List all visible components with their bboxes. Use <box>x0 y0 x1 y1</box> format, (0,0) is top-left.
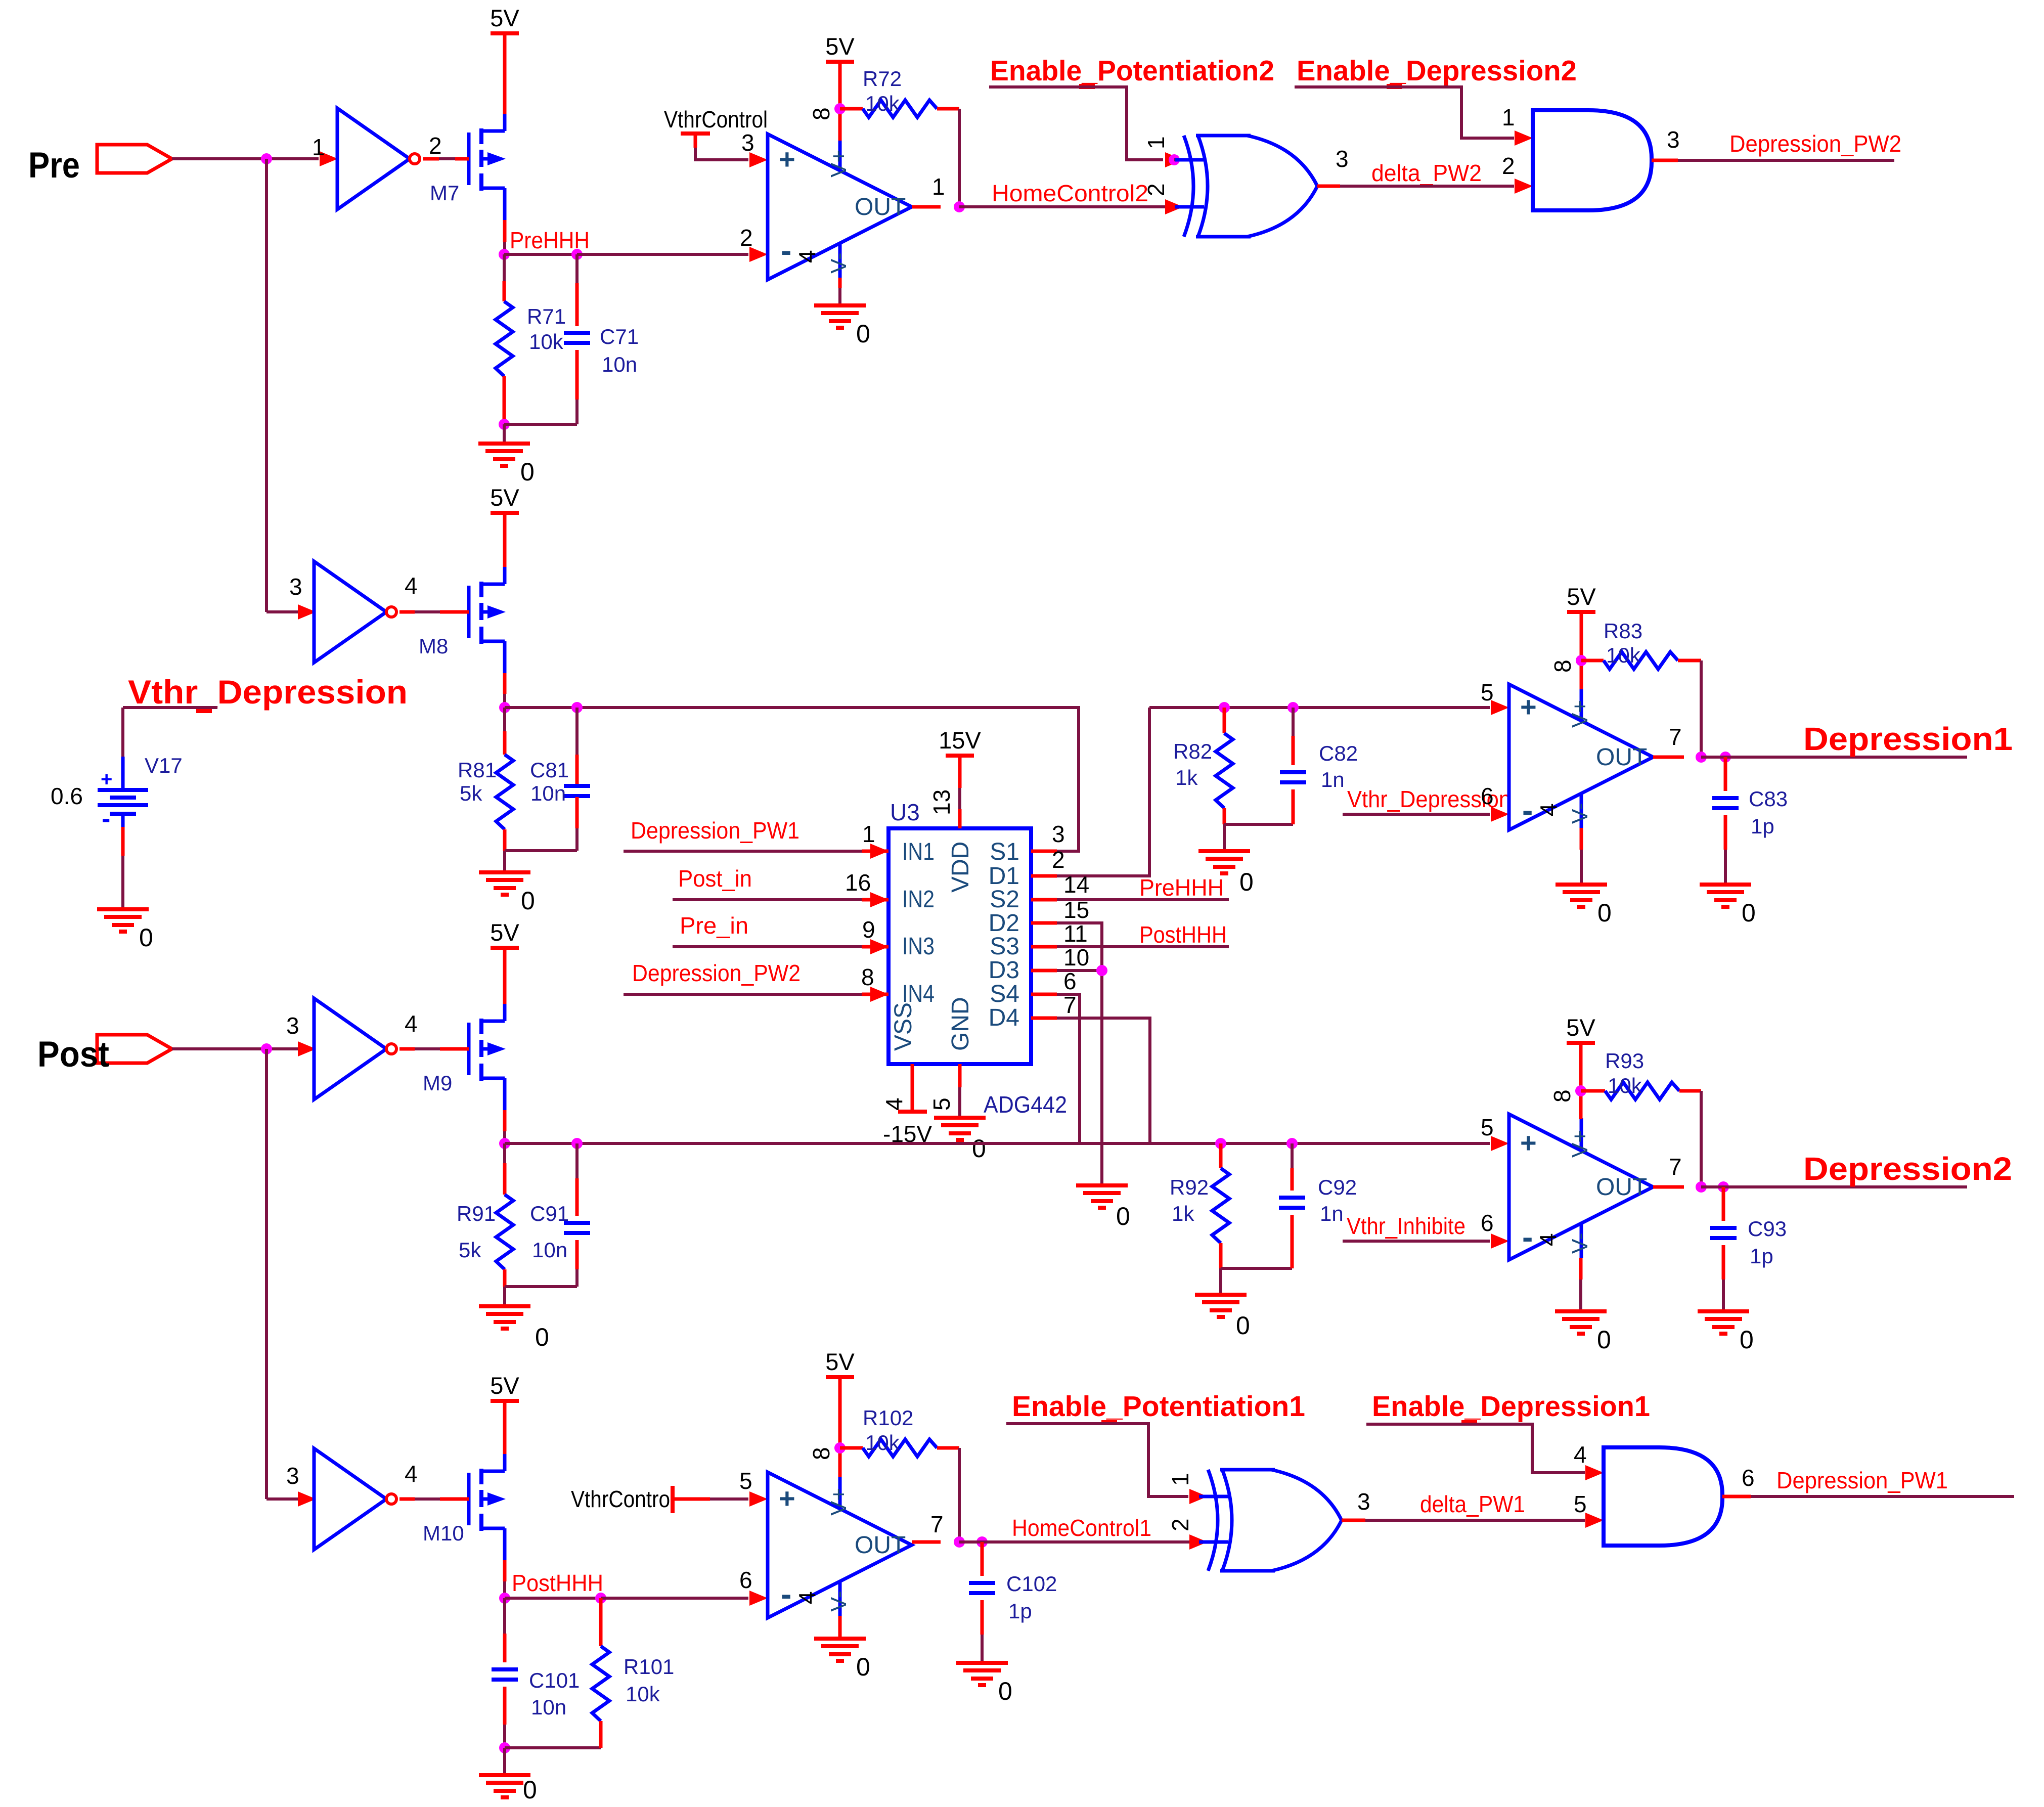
svg-text:10k: 10k <box>865 1431 900 1455</box>
wire C91 bottom lead <box>575 1240 579 1269</box>
pin arrow inverter1 input <box>320 151 338 166</box>
wire C101 bottom lead <box>503 1687 507 1725</box>
svg-text:OUT: OUT <box>1596 744 1647 771</box>
ground 0 at op-amp2 V- <box>1556 883 1607 887</box>
wire 5V to M9 drain <box>503 948 507 1004</box>
wire Post to inverter3 <box>172 1047 298 1050</box>
svg-text:16: 16 <box>845 869 871 896</box>
svg-text:4: 4 <box>405 572 418 599</box>
svg-text:1: 1 <box>1502 104 1515 130</box>
wire XOR2 output stub <box>1342 1519 1365 1522</box>
wire 5V to op-amp2 V+ pin 8 <box>1580 612 1583 689</box>
node C93 top <box>1718 1181 1729 1193</box>
wire Pre_in to IN3 <box>673 945 862 948</box>
wire delta_PW2 <box>1340 185 1514 188</box>
wire R83 left lead <box>1581 659 1604 663</box>
svg-text:GND: GND <box>947 997 974 1051</box>
ground 0 under C101 <box>479 1773 530 1777</box>
svg-text:0: 0 <box>523 1776 537 1804</box>
ground 0 under V17 <box>97 907 149 911</box>
wire C102 bottom lead <box>981 1600 984 1635</box>
svg-text:V+: V+ <box>826 1488 851 1516</box>
pin 4 stub VSS <box>911 1064 914 1112</box>
pin arrow op-amp1 minus <box>749 247 768 262</box>
svg-text:+: + <box>1520 691 1537 723</box>
wire inverter3 out to M9 gate <box>399 1047 415 1051</box>
svg-text:V+: V+ <box>1568 1130 1592 1158</box>
svg-text:1: 1 <box>312 134 325 160</box>
wire Enable_Potentiation2 <box>989 87 1163 160</box>
pin arrow op-amp4 plus <box>749 1491 768 1507</box>
svg-text:0: 0 <box>535 1323 549 1351</box>
wire 5V to op-amp4 V+ pin 8 <box>838 1377 842 1477</box>
svg-text:C82: C82 <box>1319 741 1358 765</box>
wire Enable_Depression2 <box>1295 87 1514 138</box>
wire op-amp1 V- to ground <box>838 278 842 288</box>
svg-text:0: 0 <box>1116 1202 1130 1230</box>
power 5V at M10 <box>491 1399 519 1403</box>
wire V17 minus lead <box>121 827 125 856</box>
wire R102 left lead <box>840 1446 863 1450</box>
wire R92 bottom to C92 bottom <box>1221 1267 1292 1270</box>
svg-text:Depression2: Depression2 <box>1803 1151 2012 1187</box>
pin stub IN4 <box>862 993 888 996</box>
wire Pre vertical to M8 inverter <box>265 159 268 612</box>
pin stub S1 <box>1031 850 1057 853</box>
node Pre junction <box>261 153 272 164</box>
svg-text:4: 4 <box>794 250 820 263</box>
svg-text:C92: C92 <box>1318 1175 1357 1199</box>
wire R72 left lead <box>840 107 863 111</box>
ground 0 under C93 <box>1698 1309 1749 1313</box>
svg-text:U3: U3 <box>890 799 920 825</box>
svg-text:S1: S1 <box>990 839 1019 865</box>
wire Depression1 out <box>1701 756 1967 759</box>
svg-text:R101: R101 <box>624 1655 674 1679</box>
wire HomeControl1 to XOR2 <box>959 1540 1205 1544</box>
capacitor C71 <box>564 331 590 335</box>
svg-text:M9: M9 <box>423 1071 452 1095</box>
wire R91 top lead <box>503 1143 506 1163</box>
wire op-amp4 output stub <box>912 1540 941 1544</box>
node XOR1 input 1 <box>1169 154 1180 165</box>
pin arrow op-amp3 plus <box>1491 1136 1509 1151</box>
svg-text:ADG442: ADG442 <box>984 1091 1067 1118</box>
wire Enable_Depression1 <box>1366 1424 1585 1473</box>
svg-text:R71: R71 <box>527 304 566 328</box>
inverter A1 <box>337 108 410 209</box>
pin 5 stub GND <box>958 1064 962 1087</box>
capacitor C93 <box>1710 1226 1737 1230</box>
wire op-amp4 V- to ground <box>838 1616 842 1639</box>
svg-text:5V: 5V <box>1567 583 1596 610</box>
wire AND1 output stub <box>1652 159 1678 162</box>
svg-text:5: 5 <box>1574 1491 1587 1517</box>
svg-text:5V: 5V <box>490 5 519 31</box>
svg-text:1: 1 <box>932 173 945 200</box>
svg-text:6: 6 <box>1481 783 1494 809</box>
capacitor C82 <box>1280 770 1306 774</box>
wire C83 top lead <box>1724 757 1727 791</box>
svg-text:15: 15 <box>1063 897 1089 923</box>
svg-text:Enable_Depression1: Enable_Depression1 <box>1372 1390 1650 1423</box>
wire Vthr_Depression stub <box>123 706 217 709</box>
svg-text:0: 0 <box>972 1134 986 1163</box>
svg-text:7: 7 <box>1669 1154 1682 1180</box>
wire R72 right lead <box>937 107 959 111</box>
svg-text:5V: 5V <box>1566 1014 1595 1041</box>
pin arrow XOR2 input 1 <box>1189 1489 1208 1504</box>
pin arrow op-amp2 minus <box>1491 807 1509 822</box>
pin stub S2 <box>1031 898 1057 902</box>
pin stub S3 <box>1031 945 1057 949</box>
power -15V bar at VSS <box>898 1110 927 1114</box>
svg-text:0: 0 <box>1740 1326 1754 1354</box>
resistor R101 <box>592 1646 609 1721</box>
svg-text:3: 3 <box>286 1012 299 1039</box>
svg-text:0: 0 <box>998 1677 1012 1705</box>
wire Post vertical to inverter4 <box>265 1049 268 1499</box>
wire R72 feedback down to output <box>958 109 961 207</box>
svg-text:4: 4 <box>1535 803 1562 816</box>
svg-text:0: 0 <box>856 1653 870 1681</box>
node PreHHH at M7 source <box>499 249 510 260</box>
ground 0 under R82 <box>1198 849 1250 853</box>
wire Depression2 out <box>1701 1185 1967 1188</box>
svg-text:4: 4 <box>405 1010 418 1037</box>
wire delta_PW1 <box>1365 1519 1585 1522</box>
svg-text:8: 8 <box>808 1447 834 1460</box>
wire C101 top lead <box>503 1598 506 1634</box>
svg-text:VDD: VDD <box>947 842 974 893</box>
resistor R81 <box>496 755 513 829</box>
transistor M10 <box>467 1473 471 1525</box>
svg-text:5V: 5V <box>490 919 519 946</box>
svg-text:2: 2 <box>1167 1518 1193 1531</box>
power 5V at M8 <box>491 511 519 515</box>
wire M10 source down <box>503 1560 507 1581</box>
wire R93 right lead <box>1679 1089 1701 1093</box>
svg-text:3: 3 <box>1336 146 1349 172</box>
wire op-amp3 V- to ground <box>1579 1258 1583 1280</box>
node op-amp4 output <box>954 1536 965 1548</box>
pin arrow inverter4 input <box>298 1491 316 1507</box>
wire PreHHH to op-amp1 inverting input <box>577 253 748 256</box>
svg-text:C102: C102 <box>1006 1572 1057 1596</box>
wire Vthr_Depression to op-amp2 minus <box>1343 813 1490 816</box>
op-amp U_A2 <box>1509 684 1653 830</box>
svg-text:Enable_Potentiation2: Enable_Potentiation2 <box>990 55 1274 87</box>
wire inverter1 out to M7 gate <box>423 157 439 161</box>
wire C71 bottom lead <box>575 350 579 400</box>
svg-text:M7: M7 <box>430 181 459 205</box>
wire Post_in to IN2 <box>673 898 862 901</box>
svg-text:-: - <box>1522 1219 1533 1255</box>
svg-text:1k: 1k <box>1175 766 1198 789</box>
wire M9 source down <box>503 1110 507 1131</box>
wire C83 bottom lead <box>1724 815 1727 850</box>
pin 13 stub VDD <box>958 756 962 788</box>
svg-text:7: 7 <box>930 1511 944 1537</box>
svg-text:1p: 1p <box>1008 1599 1032 1623</box>
wire C102 top lead <box>981 1542 984 1576</box>
resistor R83 <box>1604 652 1678 669</box>
node C81 top <box>571 702 583 713</box>
wire C71 bottom to R71 bottom <box>504 423 577 426</box>
node op-amp3 V+ / R93 <box>1575 1085 1586 1096</box>
svg-text:-: - <box>781 232 791 269</box>
wire R93 left lead <box>1581 1089 1605 1093</box>
svg-text:1: 1 <box>1143 136 1169 149</box>
node R101 top <box>595 1593 606 1604</box>
pin arrow op-amp4 minus <box>749 1591 768 1606</box>
node Post junction <box>261 1043 272 1054</box>
wire R93 feedback down <box>1700 1091 1703 1187</box>
wire C91 top lead <box>575 1143 579 1178</box>
wire M7 source to PreHHH node <box>503 220 507 242</box>
transistor M8 <box>467 586 471 638</box>
svg-text:6: 6 <box>1063 968 1077 994</box>
svg-text:-: - <box>1522 792 1533 828</box>
svg-text:5V: 5V <box>490 1372 519 1399</box>
wire S2 to PreHHH label <box>1057 898 1229 901</box>
node op-amp2 output <box>1696 752 1707 763</box>
svg-text:VSS: VSS <box>890 1002 917 1051</box>
ground 0 at op-amp1 V- <box>814 303 866 307</box>
svg-text:+: + <box>101 768 112 790</box>
gate AND2 <box>1604 1447 1659 1546</box>
wire to battery V17 <box>121 708 124 757</box>
node op-amp1 V+ / R72 <box>834 103 846 114</box>
svg-text:M10: M10 <box>423 1521 464 1545</box>
wire 5V to op-amp3 V+ pin 8 <box>1579 1043 1583 1119</box>
svg-text:10k: 10k <box>1608 1074 1642 1097</box>
svg-text:10k: 10k <box>529 330 564 354</box>
power 5V at M9 <box>491 946 519 950</box>
wire R83 feedback down <box>1700 660 1703 757</box>
wire C92 bottom lead <box>1291 1215 1294 1268</box>
wire inverter4 out to M10 gate <box>399 1497 415 1501</box>
svg-text:IN3: IN3 <box>902 933 935 960</box>
svg-text:V+: V+ <box>826 150 851 178</box>
node C82 top <box>1287 702 1299 713</box>
wire C101 bottom to R101 bottom <box>505 1746 601 1749</box>
svg-text:Vthr_Depression: Vthr_Depression <box>128 673 408 711</box>
svg-text:3: 3 <box>741 129 754 156</box>
svg-text:1: 1 <box>862 821 875 847</box>
svg-text:2: 2 <box>740 225 753 251</box>
wire R71 bottom lead <box>503 376 506 424</box>
svg-text:2: 2 <box>429 133 442 159</box>
wire Pre branch to inverter2 <box>266 610 298 613</box>
svg-text:Depression_PW2: Depression_PW2 <box>632 960 801 986</box>
wire C92 top lead <box>1291 1143 1294 1168</box>
wire C81 top lead <box>575 708 579 755</box>
wire PostHHH to op-amp4 minus <box>601 1597 748 1600</box>
svg-text:V-: V- <box>826 252 851 274</box>
svg-text:10k: 10k <box>1606 643 1641 667</box>
ground 0 under R91 <box>479 1304 530 1308</box>
svg-text:3: 3 <box>289 574 302 600</box>
svg-text:+: + <box>779 143 795 175</box>
svg-text:VthrControl: VthrControl <box>571 1486 675 1512</box>
svg-text:1p: 1p <box>1751 814 1774 838</box>
pin stub D2 <box>1031 921 1057 925</box>
node C92 top <box>1286 1138 1298 1149</box>
voltage source V17 <box>121 757 125 789</box>
svg-text:IN1: IN1 <box>902 839 935 865</box>
gate AND1 <box>1533 110 1588 210</box>
inverter A3 <box>314 998 386 1099</box>
svg-text:V17: V17 <box>145 754 183 777</box>
svg-text:5V: 5V <box>490 484 519 511</box>
svg-text:0.6: 0.6 <box>51 783 83 809</box>
svg-text:Depression1: Depression1 <box>1803 721 2013 757</box>
svg-text:0: 0 <box>521 887 535 915</box>
wire AND2 output stub <box>1722 1495 1751 1499</box>
svg-text:delta_PW1: delta_PW1 <box>1420 1491 1525 1517</box>
ground 0 under R81 <box>479 870 530 874</box>
svg-text:PostHHH: PostHHH <box>1139 921 1227 948</box>
svg-text:1: 1 <box>1167 1473 1193 1486</box>
pin arrow AND2 input 4 <box>1585 1465 1604 1480</box>
svg-text:5V: 5V <box>825 1348 855 1375</box>
pin arrow XOR2 input 2 <box>1189 1534 1208 1550</box>
ground 0 at op-amp4 V- <box>814 1637 866 1641</box>
wire R101 top lead <box>599 1598 603 1646</box>
svg-text:2: 2 <box>1502 153 1515 179</box>
ground 0 at op-amp3 V- <box>1555 1309 1607 1313</box>
wire to ground under R82 <box>1223 824 1226 851</box>
wire inverter2 out to M8 gate <box>399 610 415 614</box>
svg-text:S2: S2 <box>990 886 1019 913</box>
svg-text:Depression_PW2: Depression_PW2 <box>1729 130 1901 157</box>
svg-text:delta_PW2: delta_PW2 <box>1371 160 1482 186</box>
capacitor C92 <box>1279 1196 1305 1200</box>
svg-text:V-: V- <box>826 1591 851 1612</box>
node C83 top <box>1720 752 1731 763</box>
svg-text:10k: 10k <box>865 92 900 115</box>
svg-text:V-: V- <box>1568 1232 1592 1254</box>
svg-text:R93: R93 <box>1605 1049 1644 1073</box>
pin arrow XOR1 input 1 <box>1165 152 1183 167</box>
wire PostHHH horizontal <box>505 1597 601 1600</box>
wire R91 bottom to C91 bottom <box>505 1285 577 1288</box>
svg-text:4: 4 <box>1535 1233 1561 1246</box>
wire to ground under R71 <box>503 424 506 444</box>
wire D2 down to ground <box>1057 923 1102 1185</box>
wire 5V to op-amp1 V+ pin 8 <box>838 62 842 141</box>
wire M8 source down <box>503 673 507 694</box>
svg-text:10k: 10k <box>626 1682 660 1706</box>
wire S4 down to Post line <box>1057 994 1080 1143</box>
svg-text:1p: 1p <box>1750 1244 1773 1268</box>
svg-text:4: 4 <box>794 1591 820 1604</box>
pin arrow AND1 input 2 <box>1515 179 1533 194</box>
wire C81 bottom to ground corner <box>505 849 577 852</box>
node R92 top <box>1215 1138 1226 1149</box>
svg-text:D4: D4 <box>989 1004 1019 1031</box>
ground 0 under D2/D3 <box>1076 1183 1128 1187</box>
svg-text:1k: 1k <box>1172 1202 1194 1225</box>
svg-text:5: 5 <box>1481 1114 1494 1140</box>
wire R102 right lead <box>937 1446 959 1450</box>
pin arrow op-amp3 minus <box>1491 1233 1509 1249</box>
wire Depression_PW2 <box>1678 159 1894 162</box>
pin arrow op-amp2 plus <box>1491 700 1509 715</box>
svg-text:OUT: OUT <box>855 1532 906 1559</box>
resistor R93 <box>1605 1082 1679 1099</box>
svg-text:M8: M8 <box>419 634 448 658</box>
wire D4 down to Post line <box>1057 1018 1150 1143</box>
wire R101 bottom lead <box>599 1721 603 1748</box>
capacitor C101 <box>492 1667 518 1671</box>
wire HomeControl2 to XOR1 <box>959 205 1180 208</box>
svg-text:C91: C91 <box>530 1202 569 1225</box>
node PostHHH at M10 source <box>499 1593 510 1604</box>
pin stub S4 <box>1031 993 1057 996</box>
svg-text:7: 7 <box>1063 992 1077 1018</box>
wire R81 bottom lead <box>503 829 507 851</box>
pin stub D4 <box>1031 1017 1057 1020</box>
svg-text:Post_in: Post_in <box>678 865 752 892</box>
svg-text:5k: 5k <box>460 781 482 805</box>
wire R102 feedback down <box>958 1448 961 1542</box>
svg-text:HomeControl1: HomeControl1 <box>1012 1515 1151 1541</box>
node op-amp4 V+ / R102 <box>834 1442 846 1453</box>
ground 0 under C83 <box>1700 883 1751 887</box>
wire to ground under R91 <box>503 1287 506 1306</box>
svg-text:VthrControl: VthrControl <box>664 106 768 133</box>
port marker VthrControl top <box>681 131 710 136</box>
wire to ground under R92 <box>1219 1268 1222 1295</box>
svg-text:8: 8 <box>861 964 874 990</box>
svg-text:2: 2 <box>1143 183 1169 196</box>
node M8 source <box>499 702 510 713</box>
svg-text:R102: R102 <box>863 1406 913 1430</box>
svg-text:S3: S3 <box>990 933 1019 960</box>
wire op-amp1 output stub <box>912 205 941 209</box>
svg-text:0: 0 <box>1236 1311 1250 1340</box>
wire plus line to op-amp2 <box>1149 706 1490 709</box>
svg-text:14: 14 <box>1063 871 1089 898</box>
svg-text:1n: 1n <box>1320 1202 1344 1225</box>
wire Vthr_Inhibite to op-amp3 minus <box>1343 1240 1490 1243</box>
wire Post line to op-amp3 <box>505 1142 1490 1145</box>
wire D3 to D2 vertical <box>1057 969 1102 972</box>
svg-text:HomeControl2: HomeControl2 <box>992 180 1148 206</box>
svg-text:+: + <box>779 1482 795 1514</box>
svg-text:OUT: OUT <box>855 194 906 221</box>
wire Depression_PW1 <box>1751 1495 2014 1498</box>
wire R91 bottom lead <box>503 1269 507 1287</box>
svg-text:C101: C101 <box>529 1668 580 1692</box>
svg-text:11: 11 <box>1063 920 1088 947</box>
svg-text:5V: 5V <box>825 33 855 60</box>
capacitor C81 <box>564 784 590 788</box>
wire R81 top lead <box>503 708 506 731</box>
node C91 top <box>571 1138 583 1149</box>
svg-text:OUT: OUT <box>1596 1174 1647 1201</box>
svg-text:4: 4 <box>405 1461 418 1487</box>
svg-text:Depression_PW1: Depression_PW1 <box>631 817 799 844</box>
svg-text:5: 5 <box>1481 679 1494 706</box>
wire op-amp2 V- to ground <box>1580 828 1583 850</box>
transistor M9 <box>467 1023 471 1075</box>
wire Depression_PW2 to IN4 <box>624 993 862 996</box>
svg-text:R83: R83 <box>1604 619 1642 643</box>
svg-text:Depression_PW1: Depression_PW1 <box>1776 1467 1948 1493</box>
